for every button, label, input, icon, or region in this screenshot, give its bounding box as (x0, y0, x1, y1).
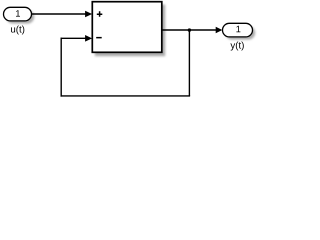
sum block U1 (92, 2, 162, 53)
plus sign (first input) (97, 11, 103, 16)
inport block "1" (4, 7, 32, 21)
sum block U1 shadow (95, 5, 165, 57)
wire: feedback bottom (61, 95, 191, 97)
wire: inport to sum + input (31, 13, 86, 15)
junction dot (188, 28, 191, 31)
inport u(t) shadow (6, 10, 34, 24)
label y(t) (230, 41, 243, 50)
inport label 1 (16, 10, 20, 16)
label u(t) (11, 25, 24, 34)
arrowhead into outport (216, 27, 223, 33)
wire: feedback down from junction (188, 30, 190, 96)
outport block "1" (223, 23, 253, 37)
wire: feedback left vertical (60, 38, 62, 97)
wire: sum output (163, 29, 217, 31)
arrowhead into + input (85, 11, 92, 18)
outport y(t) shadow (225, 26, 255, 40)
minus sign (second input) (96, 37, 102, 39)
wire: feedback into - input (61, 37, 87, 39)
outport label 1 (236, 26, 240, 32)
arrowhead into - input (85, 35, 92, 42)
